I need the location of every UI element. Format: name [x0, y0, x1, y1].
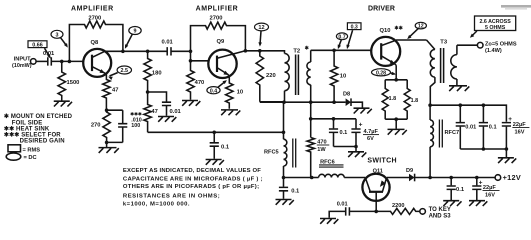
svg-text:180: 180	[152, 70, 162, 76]
svg-text:2700: 2700	[210, 15, 223, 21]
capacitor 22uF (filter)	[502, 123, 511, 126]
feedback loop wire (Q8)	[69, 25, 84, 62]
svg-text:0.7: 0.7	[338, 34, 345, 40]
Q8 collector	[92, 51, 123, 57]
svg-text:Zo=5 OHMS: Zo=5 OHMS	[485, 41, 517, 47]
svg-text:0.1: 0.1	[489, 125, 497, 131]
ground under mid 0.1	[206, 160, 224, 165]
svg-text:Q8: Q8	[91, 40, 100, 46]
choke RFC7	[429, 105, 431, 120]
capacitor 0.1 under RFC5	[283, 178, 285, 187]
mid rail wire	[148, 131, 284, 133]
ground under 1500	[54, 101, 72, 106]
resistor 270	[103, 110, 110, 142]
svg-text:270: 270	[91, 123, 101, 129]
svg-text:0.66: 0.66	[32, 42, 43, 48]
wire input to cap	[36, 60, 48, 62]
node Q8 emitter network	[105, 108, 109, 112]
capacitor 0.1 (driver bypass)	[333, 119, 335, 129]
capacitor 0.1 mid rail	[213, 132, 215, 142]
svg-text:Q10: Q10	[380, 28, 391, 34]
wire bottom bar of Q8 emitter network	[107, 141, 123, 143]
Q11 right lead with arrow	[382, 178, 386, 192]
svg-text:0.4: 0.4	[210, 88, 217, 94]
svg-text:10: 10	[340, 73, 346, 79]
wire to output terminal	[457, 44, 478, 46]
TO KEY terminal	[420, 209, 426, 215]
svg-text:220: 220	[266, 73, 276, 79]
Q10 emitter with arrow	[381, 56, 396, 65]
callout box 2.6 ACROSS 5 OHMS	[475, 16, 516, 31]
supply wire RFC5 to RFC6	[284, 177, 312, 179]
scan artifact line top right	[501, 5, 531, 8]
callout circle 2.5	[117, 66, 131, 74]
svg-text:5 OHMS: 5 OHMS	[485, 25, 506, 31]
callout circle 3	[51, 30, 63, 38]
wire Q11 base rail	[329, 211, 346, 217]
svg-text:1500: 1500	[67, 80, 80, 86]
capacitor 0.01 input coupling	[48, 57, 52, 65]
svg-text:0.01: 0.01	[170, 109, 182, 115]
ground after D8	[354, 108, 372, 113]
pointer from 2.5 to emitter	[110, 73, 118, 76]
pointer from 12 to collector wire	[409, 29, 419, 38]
resistor 1.8 left	[382, 80, 388, 119]
top bar to bypass caps	[311, 118, 356, 120]
svg-text:12: 12	[418, 24, 424, 30]
bottom rail of T2 cell	[260, 101, 346, 103]
ground under T3 secondary	[449, 86, 469, 91]
ground under 1.8 pair	[388, 129, 407, 134]
svg-text:47: 47	[112, 88, 118, 94]
svg-text:✱✱✱: ✱✱✱	[130, 112, 143, 117]
node: feedback junction	[68, 60, 72, 64]
resistor 47 (Q8 emitter)	[103, 74, 110, 110]
svg-text:DESIRED GAIN: DESIRED GAIN	[20, 138, 65, 144]
ground under 0.1 (+12V)	[443, 201, 461, 206]
vertical T2 primary return / RFC5 line	[283, 102, 285, 139]
bar under filter caps	[460, 148, 506, 150]
ground under filter caps	[498, 158, 516, 163]
wire vertical to Q9 base	[190, 51, 192, 61]
svg-text:0.1: 0.1	[340, 130, 348, 136]
wire T3 return rail	[430, 105, 506, 122]
callout circle 12 (Q9 output)	[255, 23, 269, 31]
callout circle 0.28	[372, 69, 391, 76]
wire T2 secondary top to Q10 base	[311, 49, 372, 51]
svg-text:SWITCH: SWITCH	[367, 158, 396, 165]
+12V terminal	[495, 175, 501, 181]
T2 primary winding	[285, 54, 290, 91]
capacitor 0.1 (filter)	[482, 105, 484, 122]
svg-text:9: 9	[134, 29, 137, 35]
svg-text:T2: T2	[293, 49, 300, 55]
node 180/47 junction	[146, 90, 150, 94]
svg-text:DRIVER: DRIVER	[368, 5, 395, 12]
svg-text:✱: ✱	[305, 45, 310, 51]
wire D8 to ground	[351, 102, 362, 107]
wire D9 to +12V terminal	[415, 177, 496, 179]
Q8 emitter with arrow	[92, 67, 106, 75]
resistor 47 (bias)	[144, 92, 151, 132]
bar under 1.8 pair	[385, 118, 407, 120]
resistor 2700 feedback (Q8)	[84, 21, 106, 28]
svg-text:RFC7: RFC7	[445, 130, 460, 136]
svg-text:3: 3	[56, 32, 59, 38]
node 180 top	[146, 50, 150, 54]
svg-text:T3: T3	[440, 40, 448, 46]
resistor 180	[144, 51, 151, 92]
ground at key rail	[320, 219, 338, 224]
capacitor 0.1 (+12V)	[450, 178, 452, 186]
resistor 220	[256, 51, 263, 102]
wire cap to Q8 base	[52, 60, 84, 62]
svg-text:(10mW): (10mW)	[12, 63, 32, 69]
pointer from circle 9 to node	[126, 34, 133, 47]
svg-text:D8: D8	[343, 91, 350, 97]
svg-text:AMPLIFIER: AMPLIFIER	[71, 6, 114, 13]
svg-text:1.8: 1.8	[411, 98, 419, 104]
Q11 base lead down	[375, 192, 377, 212]
svg-text:D9: D9	[406, 168, 413, 174]
node Q8 collector	[121, 50, 125, 54]
svg-text:FOIL SIDE: FOIL SIDE	[12, 120, 43, 126]
svg-text:100: 100	[131, 123, 140, 129]
svg-text:470: 470	[195, 80, 205, 86]
svg-text:+: +	[359, 122, 363, 129]
svg-text:+: +	[508, 116, 512, 123]
resistor 470 (Q9 base)	[187, 61, 194, 100]
Q9 collector	[217, 51, 245, 58]
pointer from 12 to node	[260, 31, 261, 45]
svg-text:Q9: Q9	[217, 39, 226, 45]
svg-text:0.1: 0.1	[291, 189, 300, 195]
callout circle 9	[129, 27, 141, 35]
legend DC circle	[6, 153, 21, 160]
T3 secondary winding	[456, 45, 458, 54]
pointer from 0.3 to wire	[348, 30, 353, 47]
svg-text:16V: 16V	[485, 192, 495, 198]
wire Q10 emitter down	[395, 65, 397, 80]
bar under bypass caps	[334, 146, 357, 148]
svg-text:✱✱: ✱✱	[394, 25, 403, 31]
pointer from 0.7 to wire	[339, 40, 342, 47]
svg-text:0.01: 0.01	[465, 125, 476, 131]
pointer from circle 3	[60, 37, 67, 46]
capacitor 22uF (+12V)	[476, 178, 478, 186]
svg-text:EXCEPT AS INDICATED, DECIMAL V: EXCEPT AS INDICATED, DECIMAL VALUES OF	[123, 168, 261, 174]
capacitor 0.01 bypass	[162, 102, 171, 105]
svg-text:INPUT: INPUT	[14, 57, 31, 63]
callout box 0.66 RMS	[28, 41, 47, 48]
callout circle 0.7	[336, 33, 347, 40]
svg-text:2200: 2200	[392, 203, 404, 209]
resistor 10 (Q9 emitter)	[226, 76, 233, 109]
pointer from 0.66 box to wire	[45, 48, 50, 57]
T2 core	[296, 55, 299, 96]
pointer from 0.4 to emitter	[218, 81, 226, 87]
output terminal Zo=5 OHMS	[477, 42, 483, 48]
T3 primary winding	[427, 40, 435, 50]
pointer from box to output wire	[471, 31, 477, 37]
svg-text:TO KEY: TO KEY	[429, 207, 451, 213]
T2 secondary winding	[310, 50, 312, 62]
svg-text:2.5: 2.5	[121, 68, 129, 74]
legend RMS box	[8, 145, 21, 152]
svg-text:16V: 16V	[515, 129, 525, 135]
svg-text:0.3: 0.3	[351, 24, 358, 30]
T3 core	[441, 48, 444, 83]
svg-text:0.01: 0.01	[162, 40, 174, 46]
wire Q9 collector to T2	[245, 51, 284, 54]
vertical T2 secondary return	[310, 102, 312, 137]
wire Q11 to D9	[387, 177, 409, 179]
Q10 collector	[381, 40, 426, 46]
svg-text:k=1000, M=1000 000.: k=1000, M=1000 000.	[123, 201, 190, 207]
Q11 left lead	[365, 178, 370, 192]
wire emitter network bar	[107, 109, 123, 111]
svg-text:AMPLIFIER: AMPLIFIER	[196, 6, 239, 13]
resistor 1.8 right	[404, 80, 410, 119]
wire Q8 collector to Q9	[123, 50, 167, 52]
ground under 470	[182, 101, 200, 106]
svg-text:(1.4W): (1.4W)	[485, 48, 502, 54]
svg-text:0.1: 0.1	[456, 187, 465, 193]
svg-text:1.8: 1.8	[389, 96, 397, 102]
svg-text:AND S3: AND S3	[429, 213, 452, 219]
ground under RFC5 0.1	[276, 200, 294, 205]
svg-text:6V: 6V	[367, 136, 374, 142]
svg-text:47: 47	[151, 109, 157, 115]
wire 220 bottom to rail	[260, 101, 284, 103]
svg-text:0.01: 0.01	[337, 201, 348, 207]
resistor 2200	[390, 208, 420, 214]
svg-text:+12V: +12V	[503, 173, 521, 182]
capacitor 0.01 (key line)	[346, 207, 350, 215]
ground under 0.01 bypass	[158, 117, 176, 122]
Q9 emitter with arrow	[217, 68, 229, 76]
svg-text:✱✱ HEAT SINK: ✱✱ HEAT SINK	[4, 126, 50, 133]
resistor 470 1W	[307, 138, 314, 178]
svg-text:CAPACITANCE ARE IN MICROFARADS: CAPACITANCE ARE IN MICROFARADS ( µF ) ;	[123, 177, 263, 183]
resistor 10 (T2 secondary load)	[330, 50, 337, 102]
wire to 0.01 bypass	[148, 92, 167, 102]
capacitor 0.01 interstage	[167, 47, 171, 55]
svg-text:✱ MOUNT ON ETCHED: ✱ MOUNT ON ETCHED	[4, 113, 73, 120]
feedback loop wire (Q9)	[189, 50, 193, 54]
node: 1500 junction	[60, 60, 64, 64]
svg-text:1W: 1W	[317, 147, 326, 153]
emitter resistor bar	[385, 79, 407, 81]
svg-text:RFC5: RFC5	[264, 150, 279, 156]
svg-text:12: 12	[258, 25, 264, 31]
ground under 22uF (+12V)	[469, 201, 487, 206]
svg-text:10: 10	[237, 90, 243, 96]
svg-text:0.1: 0.1	[221, 144, 230, 150]
resistor 2700 feedback (Q9)	[205, 22, 227, 29]
callout box 0.3	[347, 23, 361, 30]
svg-text:OTHERS ARE IN PICOFARADS ( pF: OTHERS ARE IN PICOFARADS ( pF OR µµF);	[123, 184, 259, 190]
capacitor .010/100 select	[122, 110, 124, 123]
ground under 270	[99, 148, 119, 153]
resistor 1500	[58, 61, 66, 100]
svg-text:= RMS: = RMS	[23, 147, 41, 153]
wire Q9 base line	[191, 60, 209, 62]
svg-text:2.6 ACROSS: 2.6 ACROSS	[479, 19, 511, 25]
callout circle 0.4	[207, 87, 220, 94]
callout circle 12 (driver output)	[415, 22, 426, 29]
svg-text:2700: 2700	[88, 16, 101, 22]
svg-text:0.28: 0.28	[376, 70, 386, 76]
ground under bypass caps	[348, 152, 366, 157]
ground under 10	[221, 110, 240, 115]
pointer from 0.28 to emitter	[391, 73, 395, 74]
svg-text:RESISTANCES ARE IN OHMS;: RESISTANCES ARE IN OHMS;	[123, 194, 220, 200]
wire RFC6 to Q11	[344, 177, 365, 179]
svg-text:= DC: = DC	[24, 155, 37, 161]
capacitor 0.01 (filter)	[459, 105, 461, 122]
capacitor 4.7uF electrolytic	[355, 119, 357, 129]
